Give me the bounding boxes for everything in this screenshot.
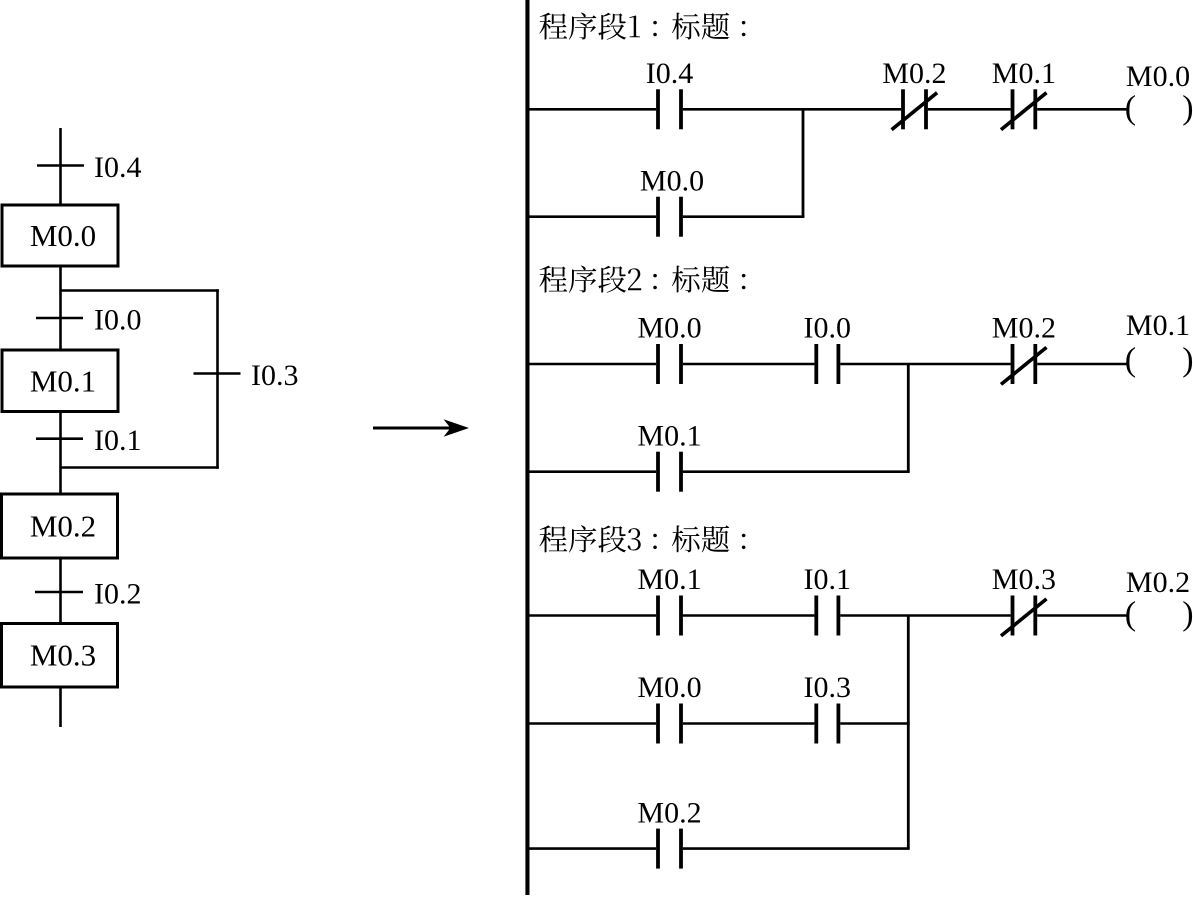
junction vertical network1 [802, 109, 805, 216]
branch split wire [61, 289, 219, 292]
NC contact M0.2 [1001, 344, 1047, 384]
svg-text:M0.2: M0.2 [637, 796, 701, 829]
wire network3 branch3 [529, 847, 909, 850]
contact M0.1 [656, 452, 683, 492]
svg-text:M0.0: M0.0 [637, 671, 701, 704]
svg-text:M0.2: M0.2 [1126, 566, 1190, 599]
svg-text:M0.1: M0.1 [992, 57, 1056, 90]
wire network2 parallel branch [529, 470, 909, 473]
network 3 title 程序段3：标题： [539, 525, 745, 552]
network 1 title 程序段1：标题： [539, 13, 745, 40]
step box M0.0 [2, 205, 118, 266]
svg-text:): ) [1182, 595, 1193, 632]
svg-text:I0.3: I0.3 [251, 359, 299, 392]
svg-text:M0.0: M0.0 [30, 218, 96, 253]
svg-text:M0.1: M0.1 [637, 419, 701, 452]
svg-text:(: ( [1125, 595, 1136, 632]
transition I0.1 tick [36, 437, 83, 440]
svg-text:I0.2: I0.2 [94, 578, 142, 611]
junction vertical network2 [907, 364, 910, 472]
svg-text:I0.4: I0.4 [94, 151, 142, 184]
svg-text:M0.1: M0.1 [1126, 309, 1190, 342]
contact M0.1 [656, 596, 683, 636]
svg-text:(: ( [1125, 342, 1136, 379]
coil M0.1 [1125, 342, 1193, 379]
wire network1 parallel branch [529, 215, 804, 218]
transition I0.3 tick [194, 372, 241, 375]
svg-text:): ) [1182, 90, 1193, 127]
svg-text:M0.1: M0.1 [637, 563, 701, 596]
transition I0.0 tick [36, 317, 83, 320]
svg-text:I0.3: I0.3 [804, 671, 852, 704]
wire network2 rung [529, 363, 1126, 366]
junction vertical network3 [907, 616, 910, 849]
svg-text:I0.4: I0.4 [646, 57, 694, 90]
svg-text:M0.2: M0.2 [882, 57, 946, 90]
coil M0.0 [1125, 90, 1193, 127]
NC contact M0.1 [1001, 89, 1047, 129]
SFC main vertical wire [59, 128, 62, 727]
svg-text:M0.0: M0.0 [637, 312, 701, 345]
svg-text:): ) [1182, 342, 1193, 379]
svg-text:(: ( [1125, 90, 1136, 127]
NC contact M0.3 [1001, 596, 1047, 636]
contact I0.4 [656, 89, 683, 129]
step box M0.3 [2, 624, 118, 688]
contact M0.0 [656, 344, 683, 384]
coil M0.2 [1125, 595, 1193, 632]
contact I0.1 [814, 596, 840, 636]
svg-text:M0.0: M0.0 [640, 165, 704, 198]
svg-text:I0.0: I0.0 [804, 312, 852, 345]
contact M0.0 [656, 704, 683, 744]
svg-text:M0.0: M0.0 [1126, 60, 1190, 93]
step box M0.2 [2, 494, 118, 558]
branch join wire [61, 466, 219, 469]
svg-text:M0.2: M0.2 [992, 312, 1056, 345]
step box M0.1 [2, 350, 118, 412]
arrow SFC to ladder [373, 419, 469, 437]
branch right vertical wire [216, 289, 219, 469]
svg-text:I0.1: I0.1 [804, 563, 852, 596]
NC contact M0.2 [892, 89, 938, 129]
wire network3 branch2 [529, 722, 909, 725]
contact I0.3 [814, 704, 840, 744]
wire network1 rung [529, 108, 1126, 111]
network 2 title 程序段2：标题： [539, 266, 745, 293]
transition I0.4 tick [37, 164, 84, 167]
svg-text:M0.2: M0.2 [30, 509, 96, 544]
contact M0.2 [656, 829, 683, 869]
svg-text:I0.1: I0.1 [94, 424, 142, 457]
svg-text:M0.3: M0.3 [992, 563, 1056, 596]
transition I0.2 tick [35, 591, 83, 594]
contact I0.0 [814, 344, 840, 384]
svg-text:M0.1: M0.1 [30, 364, 96, 399]
contact M0.0 [656, 197, 683, 237]
wire network3 rung [529, 614, 1126, 617]
svg-text:M0.3: M0.3 [30, 638, 96, 673]
svg-text:I0.0: I0.0 [94, 304, 142, 337]
ladder left power rail [525, 0, 529, 895]
